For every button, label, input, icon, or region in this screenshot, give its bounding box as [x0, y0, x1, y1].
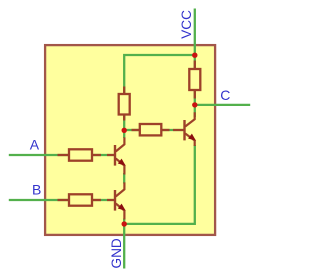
- wire input B: [9, 199, 115, 201]
- svg-text:A: A: [30, 137, 40, 153]
- wire input A: [9, 154, 115, 156]
- node output junction: [192, 102, 197, 107]
- svg-text:C: C: [220, 87, 230, 103]
- IC body box: [45, 45, 215, 235]
- wire R1 bottom to left node: [123, 113, 125, 131]
- resistor R1: [119, 87, 130, 121]
- node VCC junction: [192, 53, 197, 58]
- svg-text:GND: GND: [109, 238, 124, 268]
- resistor R2: [189, 61, 200, 99]
- wire Q1 emitter to Q2 collector: [123, 173, 125, 184]
- wire GND stub: [123, 224, 125, 269]
- transistor Q3: [173, 112, 196, 146]
- wire R3 to Q3 base: [161, 129, 184, 131]
- resistor R5 input B: [58, 194, 102, 205]
- transistor Q2: [107, 182, 126, 219]
- resistor R4 input A: [58, 149, 102, 160]
- node ground junction: [122, 221, 127, 226]
- wire VCC vertical: [194, 9, 196, 118]
- resistor R3: [132, 124, 170, 135]
- wire Q3 emitter and ground rail: [124, 145, 195, 224]
- wire left node to Q1 collector: [123, 130, 125, 138]
- svg-text:VCC: VCC: [179, 10, 194, 39]
- wire C output: [195, 104, 250, 106]
- wire left node to R3: [124, 129, 140, 131]
- node left base junction: [122, 128, 127, 133]
- wire Q2 emitter to ground node: [123, 219, 125, 225]
- wire top rail to R1: [124, 55, 195, 95]
- transistor Q1: [107, 137, 126, 174]
- svg-text:B: B: [32, 182, 41, 198]
